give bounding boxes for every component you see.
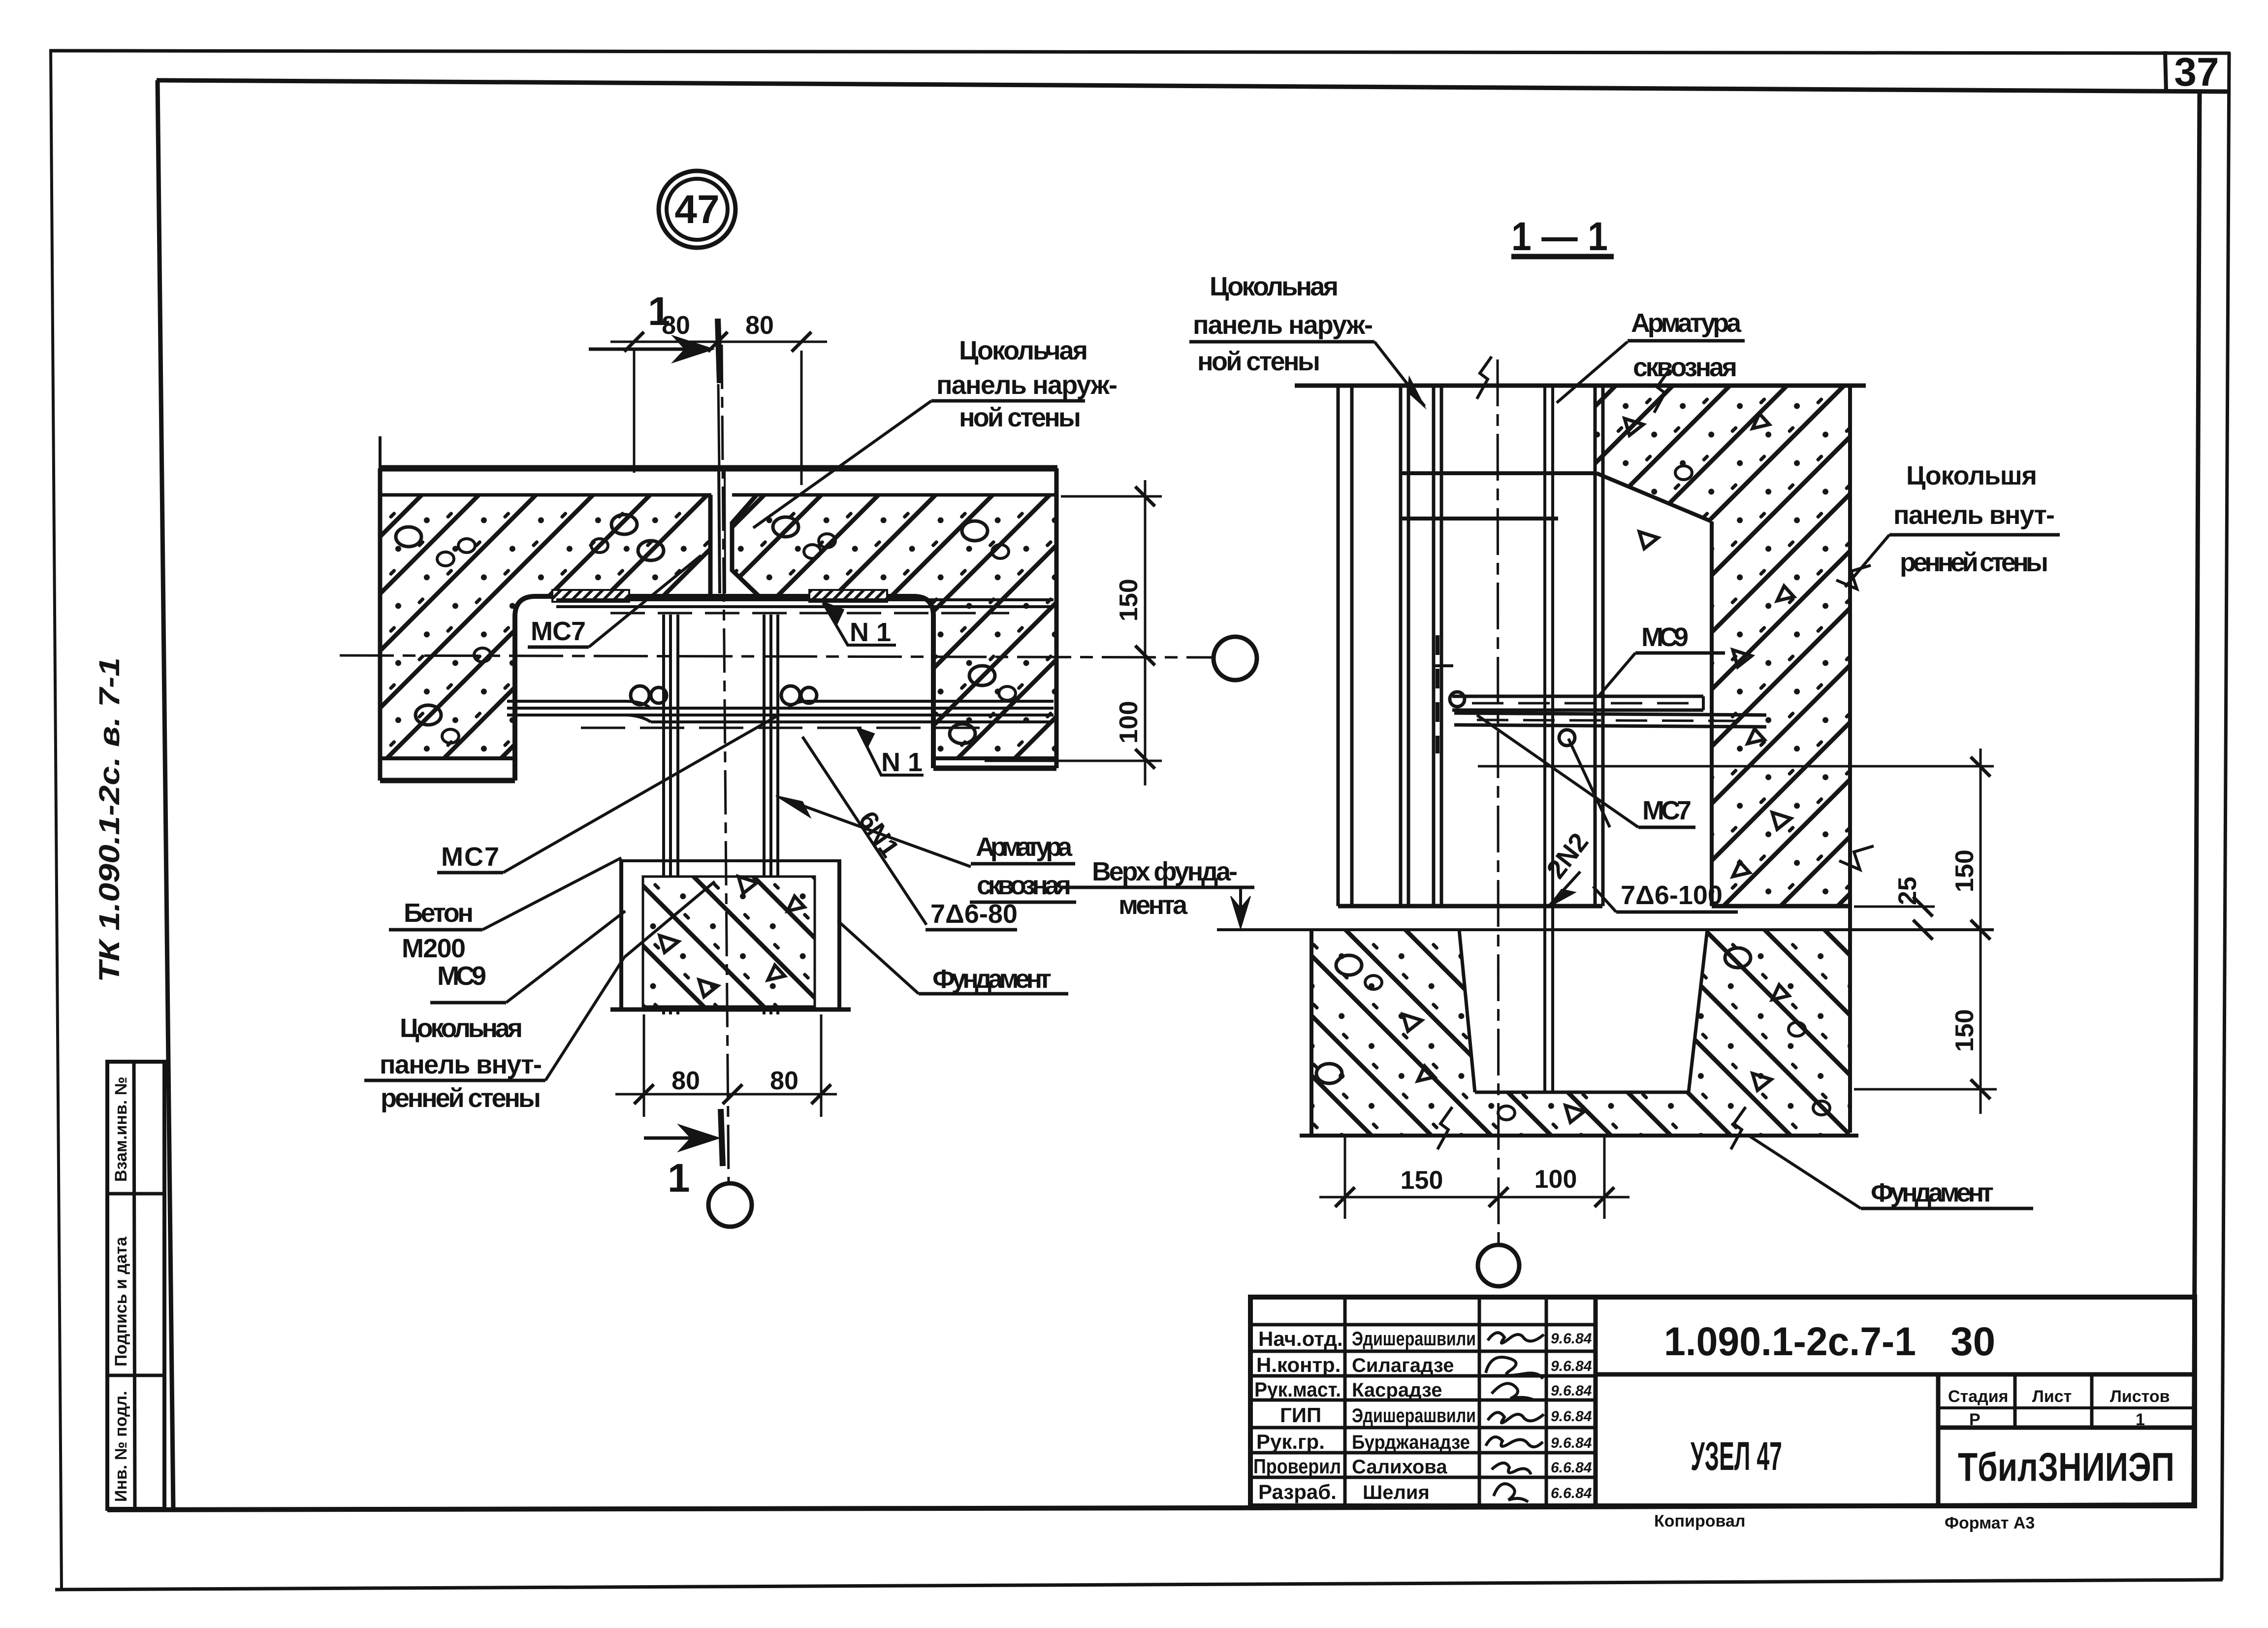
svg-text:Лист: Лист — [2032, 1387, 2072, 1406]
ledge level line — [1478, 765, 1994, 768]
svg-text:сквозная: сквозная — [1633, 353, 1737, 382]
section mark bottom — [644, 1109, 723, 1166]
svg-text:9.6.84: 9.6.84 — [1551, 1331, 1592, 1347]
aggregate decorations right drawing — [1316, 414, 1830, 1122]
svg-text:100: 100 — [1534, 1165, 1577, 1194]
outer panel edge lines — [1338, 386, 1441, 906]
svg-text:панель наруж-: панель наруж- — [936, 370, 1118, 400]
svg-text:Фундамент: Фундамент — [1871, 1178, 1994, 1207]
svg-text:9.6.84: 9.6.84 — [1551, 1358, 1592, 1374]
svg-text:7Δ6-100: 7Δ6-100 — [1621, 880, 1723, 910]
panel top edge — [379, 493, 711, 497]
svg-text:80: 80 — [745, 311, 774, 340]
break mark foundation bottom left — [1437, 1107, 1452, 1149]
chamfered end of right panel — [732, 495, 759, 596]
sidebar table — [107, 1062, 164, 1509]
svg-text:Формат А3: Формат А3 — [1945, 1514, 2035, 1532]
svg-text:150: 150 — [1950, 849, 1979, 892]
band left edge — [378, 468, 383, 781]
svg-text:Листов: Листов — [2110, 1387, 2170, 1406]
node badge circle 47 — [659, 171, 735, 248]
svg-text:150: 150 — [1950, 1009, 1979, 1052]
through rebar 2N2 — [1543, 386, 1546, 1092]
svg-text:Арматура: Арматура — [1631, 308, 1742, 338]
svg-text:Цокольная: Цокольная — [400, 1013, 523, 1043]
left table rows — [1250, 1323, 1596, 1327]
svg-text:9.6.84: 9.6.84 — [1551, 1435, 1592, 1451]
svg-text:Нач.отд.: Нач.отд. — [1258, 1327, 1343, 1350]
left table columns — [1343, 1297, 1347, 1506]
svg-text:Бурджанадзе: Бурджанадзе — [1352, 1432, 1470, 1453]
mortar joint strip right (hatched) — [809, 590, 887, 602]
slab top edge — [379, 465, 1057, 472]
svg-text:панель внут-: панель внут- — [1893, 500, 2055, 530]
inner panel notch edges — [1594, 386, 1597, 906]
top of foundation level line — [1217, 928, 1994, 931]
svg-text:Цокольная: Цокольная — [1210, 272, 1339, 301]
white basement panel outline (rounded) — [515, 596, 933, 781]
svg-text:N 1: N 1 — [850, 618, 891, 647]
svg-text:МС9: МС9 — [437, 961, 486, 991]
svg-text:6.6.84: 6.6.84 — [1551, 1460, 1592, 1476]
svg-text:ной стены: ной стены — [1197, 347, 1320, 376]
axis reference circle bottom — [708, 1183, 752, 1227]
svg-text:N 1: N 1 — [881, 748, 923, 777]
svg-text:ТбилЗНИИЭП: ТбилЗНИИЭП — [1958, 1445, 2174, 1490]
centre axis horizontal — [340, 655, 1212, 657]
svg-text:М200: М200 — [402, 934, 466, 963]
svg-text:Инв. № подл.: Инв. № подл. — [112, 1391, 130, 1502]
svg-text:1 — 1: 1 — 1 — [1511, 214, 1608, 259]
page number box 37 — [2165, 51, 2166, 91]
panel ledge line upper — [1401, 471, 1597, 475]
svg-text:Фундамент: Фундамент — [932, 964, 1052, 994]
band bottom slab edge left — [380, 778, 515, 783]
right dimension 150 150 — [1854, 749, 1997, 1114]
horizontal rebar МС9 band with bends — [507, 701, 651, 709]
vertical rebar pair left — [662, 615, 665, 1014]
svg-text:30: 30 — [1950, 1319, 1995, 1364]
hatched wall panel left block — [380, 495, 710, 758]
break mark top left — [1477, 357, 1492, 399]
inner wall panel hatch — [1595, 386, 1850, 906]
connection plate MC7 lines — [556, 598, 1054, 601]
axis reference circle right — [1214, 637, 1257, 680]
vertical rebar pair right — [763, 615, 766, 1014]
inner panel right edge — [1848, 386, 1852, 1133]
bottom dimension 80 80 — [615, 1014, 837, 1117]
svg-text:100: 100 — [1115, 701, 1143, 744]
МС9 plate lower — [1454, 713, 1766, 727]
svg-text:ТК 1.090.1-2с. в. 7-1: ТК 1.090.1-2с. в. 7-1 — [94, 657, 126, 982]
svg-text:Силагадзе: Силагадзе — [1352, 1355, 1454, 1376]
axis reference circle bottom — [1478, 1245, 1519, 1286]
svg-text:150: 150 — [1401, 1166, 1443, 1195]
foundation hatch block — [643, 877, 815, 1007]
svg-text:Цокольчая: Цокольчая — [959, 336, 1088, 365]
svg-text:Цокольшя: Цокольшя — [1906, 461, 2037, 490]
svg-text:Верх фунда-: Верх фунда- — [1092, 857, 1238, 886]
svg-text:Шелия: Шелия — [1363, 1482, 1430, 1503]
joint edge of left panel — [708, 495, 713, 598]
svg-text:Касрадзе: Касрадзе — [1352, 1379, 1442, 1401]
top dimension 80 80 — [610, 319, 827, 593]
МС9 plate upper — [1452, 696, 1703, 710]
band right edge — [1054, 468, 1059, 768]
svg-text:9.6.84: 9.6.84 — [1551, 1383, 1592, 1399]
mortar joint strip left (hatched) — [552, 590, 629, 602]
svg-text:Салихова: Салихова — [1352, 1456, 1447, 1478]
svg-text:Р: Р — [1969, 1410, 1981, 1429]
svg-text:25: 25 — [1893, 877, 1922, 905]
svg-text:1: 1 — [648, 289, 671, 334]
top edge of panels — [1295, 384, 1866, 388]
label 6N1 on diagonal — [802, 737, 926, 925]
label N1 lower — [858, 728, 924, 775]
svg-text:9.6.84: 9.6.84 — [1551, 1408, 1592, 1425]
svg-text:ренней стены: ренней стены — [1900, 548, 2048, 577]
band bottom hatch edge right — [933, 756, 1056, 760]
rebar loop circles right — [781, 686, 800, 705]
svg-text:УЗЕЛ 47: УЗЕЛ 47 — [1691, 1434, 1782, 1479]
right part dividers — [1596, 1372, 2195, 1377]
svg-text:6.6.84: 6.6.84 — [1551, 1485, 1592, 1501]
svg-text:МС9: МС9 — [1641, 622, 1689, 652]
svg-text:Бетон: Бетон — [404, 898, 474, 928]
svg-text:панель наруж-: панель наруж- — [1193, 310, 1373, 340]
hatched wall panel right block — [732, 495, 1056, 758]
svg-text:150: 150 — [1115, 579, 1143, 621]
svg-text:Проверил: Проверил — [1253, 1455, 1341, 1478]
break mark right edge — [1836, 565, 1871, 589]
centre axis vertical — [722, 345, 729, 1182]
svg-text:Рук.гр.: Рук.гр. — [1256, 1430, 1325, 1453]
svg-text:МС7: МС7 — [1642, 796, 1692, 825]
svg-text:Н.контр.: Н.контр. — [1256, 1353, 1341, 1376]
svg-text:1: 1 — [2136, 1410, 2145, 1429]
foundation outline — [1300, 930, 1858, 1136]
bolt loop centre — [1559, 730, 1575, 746]
band bottom hatch edge left — [380, 756, 515, 760]
section mark top — [589, 319, 720, 383]
foundation outline — [619, 859, 623, 1009]
svg-text:ной стены: ной стены — [959, 403, 1081, 432]
mini dimension 25 — [1854, 897, 1935, 940]
centre axis of joint — [1498, 359, 1499, 1245]
aggregate decorations left band — [396, 515, 1016, 997]
svg-text:Рук.маст.: Рук.маст. — [1254, 1378, 1341, 1401]
svg-text:Эдишерашвили: Эдишерашвили — [1352, 1328, 1476, 1350]
svg-text:мента: мента — [1118, 890, 1188, 920]
foundation hatch mass — [1311, 930, 1850, 1136]
svg-text:37: 37 — [2174, 50, 2219, 95]
break mark foundation bottom right — [1731, 1107, 1746, 1149]
svg-text:МС7: МС7 — [531, 617, 586, 646]
svg-text:Стадия: Стадия — [1948, 1387, 2008, 1406]
svg-text:80: 80 — [770, 1067, 799, 1095]
rebar loop circles left — [631, 686, 649, 705]
panel ledge line lower — [1401, 517, 1558, 521]
svg-text:47: 47 — [674, 187, 719, 232]
svg-text:МС7: МС7 — [441, 842, 499, 872]
panels bottom edge — [1338, 904, 1602, 909]
svg-text:Копировал: Копировал — [1654, 1512, 1745, 1530]
svg-text:Эдишерашвили: Эдишерашвили — [1352, 1405, 1476, 1427]
break mark top right — [1654, 370, 1669, 413]
svg-text:Подпись и дата: Подпись и дата — [112, 1236, 130, 1367]
band bottom slab edge right — [933, 766, 1056, 771]
label N1 upper — [823, 603, 896, 645]
svg-text:ренней стены: ренней стены — [381, 1083, 541, 1113]
svg-text:Арматура: Арматура — [976, 832, 1073, 862]
svg-text:1: 1 — [668, 1156, 690, 1201]
svg-text:1.090.1-2с.7-1: 1.090.1-2с.7-1 — [1664, 1319, 1916, 1364]
svg-text:панель внут-: панель внут- — [380, 1050, 542, 1079]
right dimension 150 100 — [985, 480, 1162, 785]
svg-text:сквозная: сквозная — [977, 871, 1071, 900]
svg-text:Взам.инв. №: Взам.инв. № — [112, 1076, 130, 1182]
bottom dimension 150 100 — [1319, 1138, 1629, 1219]
joint dashes in outer panel — [1436, 635, 1439, 753]
bolt loop left — [1450, 692, 1465, 707]
signatures (squiggles) — [1486, 1333, 1544, 1502]
svg-text:ГИП: ГИП — [1280, 1403, 1321, 1427]
svg-text:Разраб.: Разраб. — [1258, 1480, 1337, 1503]
svg-text:80: 80 — [671, 1067, 700, 1095]
